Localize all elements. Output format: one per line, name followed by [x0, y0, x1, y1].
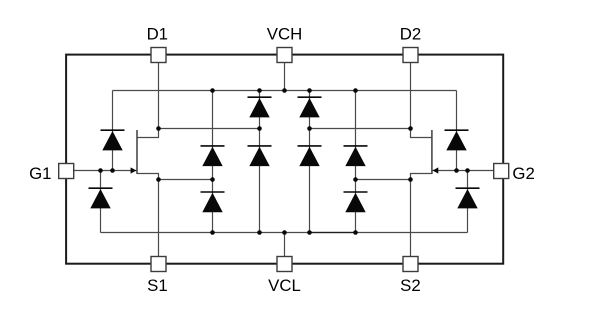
pin S2: [403, 257, 418, 272]
diode: column 4 lower diode: [344, 192, 368, 212]
junction: G2 lead / upper clamp branch: [454, 168, 459, 173]
wire: bottom inner rail (VCL net): [101, 232, 468, 234]
wire: column 3 branch: [309, 91, 311, 233]
junction: G1 lead / lower clamp branch: [98, 168, 103, 173]
svg-text:VCL: VCL: [268, 276, 301, 295]
diode: G2 upper clamp diode: [445, 130, 469, 150]
wire: G2 upper clamp branch: [456, 91, 458, 171]
junction: right mid rail / D2 lead and Q2 drain: [408, 126, 413, 131]
wire: S2 pin lead up to right lower rail: [410, 180, 412, 257]
diode: G1 upper clamp diode: [101, 130, 125, 150]
junction: top rail / column 3: [307, 88, 312, 93]
wire: G1 gate lead: [74, 170, 137, 172]
junction: bottom rail / column 3: [307, 230, 312, 235]
pin G1: [59, 164, 74, 179]
wire: G1 lower clamp branch: [100, 171, 102, 233]
junction: G1 lead / upper clamp branch: [110, 168, 115, 173]
wire: VCL pin lead: [284, 233, 286, 257]
junction: left lower rail / S1 lead and Q1 source: [156, 177, 161, 182]
junction: G2 lead / lower clamp branch: [465, 168, 470, 173]
wire: column 4 branch: [355, 91, 357, 233]
transistor Q2 (right MOSFET, gate G2): [411, 129, 439, 180]
pin D1: [151, 48, 166, 63]
junction: right lower rail / column 4: [353, 177, 358, 182]
diode: column 1 lower diode: [201, 192, 225, 212]
svg-text:S1: S1: [147, 276, 168, 295]
diode: column 3 top diode: [298, 97, 322, 117]
svg-text:G2: G2: [512, 164, 534, 183]
junction: right mid rail / column 3: [307, 126, 312, 131]
pin S1: [151, 257, 166, 272]
wire: D1 pin lead down to left mid rail: [158, 62, 160, 128]
wire: left lower rail (S1 net): [159, 179, 213, 181]
pin G2: [494, 164, 509, 179]
wire: column 2 branch: [259, 91, 261, 233]
wire: G2 lower clamp branch: [467, 171, 469, 233]
junction: top rail / VCH lead: [282, 88, 287, 93]
junction: left mid rail / D1 lead and Q1 drain: [156, 126, 161, 131]
wire: right mid rail (D2 net): [310, 128, 411, 130]
junction: left lower rail / column 1: [210, 177, 215, 182]
wire: D2 pin lead down to right mid rail: [410, 62, 412, 128]
diode: column 2 top diode: [248, 97, 272, 117]
junction: top rail / column 2: [257, 88, 262, 93]
wire: G2 gate lead: [432, 170, 494, 172]
diode: column 1 middle diode: [201, 146, 225, 166]
junction: bottom rail / column 2: [257, 230, 262, 235]
diode: column 3 middle diode: [298, 146, 322, 166]
outer package case rectangle: [66, 55, 503, 264]
wire: VCH pin lead: [284, 62, 286, 90]
junction: top rail / column 1: [210, 88, 215, 93]
transistor Q1 (left MOSFET, gate G1): [131, 129, 159, 180]
junction: bottom rail / VCL lead: [282, 230, 287, 235]
diode: column 4 middle diode: [344, 146, 368, 166]
diode: column 2 middle diode: [248, 146, 272, 166]
wire: right lower rail (S2 net): [356, 179, 411, 181]
diode: G1 lower clamp diode: [89, 188, 113, 208]
junction: right lower rail / S2 lead and Q2 source: [408, 177, 413, 182]
wire: G1 upper clamp branch: [112, 91, 114, 171]
wire: top inner rail (VCH net): [113, 90, 457, 92]
junction: bottom rail / column 1: [210, 230, 215, 235]
pin VCL: [277, 257, 292, 272]
svg-text:S2: S2: [400, 276, 421, 295]
diode: G2 lower clamp diode: [456, 188, 480, 208]
wire: S1 pin lead up to left lower rail: [158, 180, 160, 257]
svg-text:G1: G1: [29, 164, 51, 183]
svg-text:D2: D2: [400, 24, 421, 43]
pin D2: [403, 48, 418, 63]
pin VCH: [277, 48, 292, 63]
svg-text:D1: D1: [147, 24, 168, 43]
wire: column 1 branch: [212, 91, 214, 233]
svg-text:VCH: VCH: [267, 24, 302, 43]
junction: bottom rail / column 4: [353, 230, 358, 235]
wire: bottom rail overlap segment col3-col4 (drawn darker): [310, 232, 356, 234]
junction: left mid rail / column 2: [257, 126, 262, 131]
junction: top rail / column 4: [353, 88, 358, 93]
wire: left mid rail (D1 net): [159, 128, 260, 130]
